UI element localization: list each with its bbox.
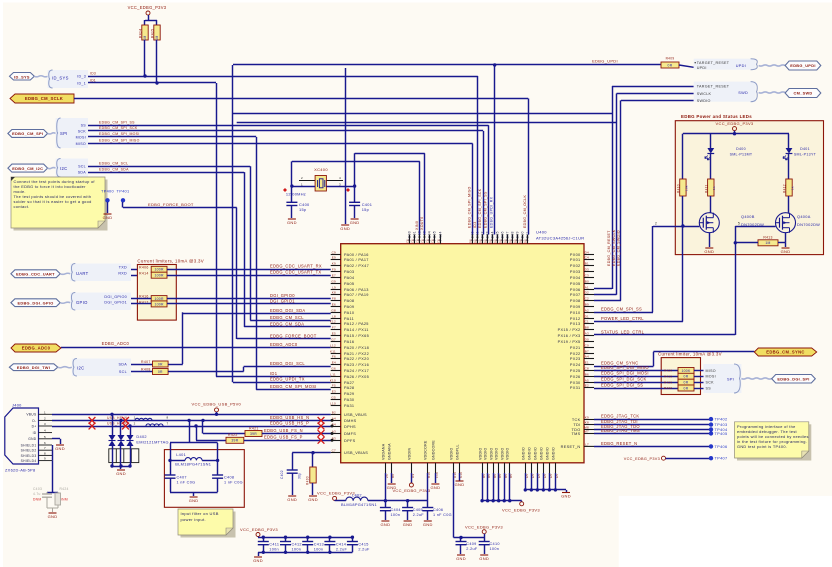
- svg-text:PX12: PX12: [570, 317, 581, 321]
- svg-text:PA06 / PA13: PA06 / PA13: [344, 288, 369, 292]
- wire: [785, 233, 787, 243]
- svg-text:K8: K8: [585, 421, 589, 425]
- svg-text:E9: E9: [332, 256, 336, 260]
- wire TARGET_RESET run: [233, 113, 612, 115]
- capacitor C410: [484, 538, 486, 542]
- capacitor C409: [460, 538, 462, 542]
- svg-text:VBUS: VBUS: [26, 413, 37, 417]
- harness UPDI: [694, 59, 756, 70]
- svg-text:5: 5: [44, 435, 46, 439]
- svg-text:D6: D6: [504, 239, 508, 243]
- svg-text:SHIELD1: SHIELD1: [21, 443, 37, 447]
- wire crystal: [292, 186, 315, 188]
- wire EDBG_CM_SPI_SCK to top pin: [483, 131, 485, 235]
- svg-text:Input filter on USB: Input filter on USB: [181, 511, 219, 516]
- svg-text:PX10: PX10: [570, 311, 581, 315]
- svg-text:K12: K12: [330, 320, 336, 324]
- svg-text:PA02 / PX47: PA02 / PX47: [344, 264, 369, 268]
- svg-text:7: 7: [44, 446, 46, 450]
- svg-text:EDBG_CM_SPI_SS: EDBG_CM_SPI_SS: [601, 307, 642, 312]
- harness UART: [70, 264, 131, 282]
- svg-text:D6: D6: [499, 239, 503, 243]
- svg-text:L12: L12: [330, 344, 336, 348]
- svg-text:GNDPLL: GNDPLL: [456, 444, 460, 460]
- svg-text:D6: D6: [509, 239, 513, 243]
- port EDBG_CDC_UART: [11, 270, 60, 278]
- svg-text:5: 5: [738, 222, 740, 226]
- wire EDBG_FORCE_BOOT: [237, 338, 331, 340]
- wire TARGET_RESET: [612, 86, 694, 88]
- svg-text:2.2uF: 2.2uF: [466, 547, 478, 551]
- svg-text:power input.: power input.: [181, 517, 206, 522]
- svg-text:C414: C414: [336, 542, 346, 546]
- svg-text:C6: C6: [421, 239, 425, 243]
- wire EDBG_DGI_SDA: [183, 313, 331, 315]
- port CM_SWD: [785, 89, 821, 98]
- svg-text:PA27: PA27: [344, 381, 354, 385]
- wire ID1: [216, 83, 218, 377]
- svg-text:GPIO: GPIO: [76, 300, 88, 305]
- chip top pins group 1: [409, 235, 411, 244]
- port ID_SYS: [10, 73, 35, 81]
- svg-text:PA10: PA10: [344, 311, 354, 315]
- ground: [104, 213, 112, 215]
- svg-text:PX26: PX26: [570, 375, 581, 379]
- capacitor C408: [217, 460, 219, 475]
- wire XIN0: [291, 161, 293, 186]
- wire EDBG_RESET_N: [594, 446, 711, 448]
- wire GNDIO bus: [525, 473, 527, 490]
- ground: [52, 508, 54, 512]
- svg-text:15p: 15p: [362, 207, 369, 212]
- capacitor C414: [329, 537, 331, 541]
- svg-text:EDBG_CM_SPI_SS: EDBG_CM_SPI_SS: [99, 120, 135, 124]
- svg-text:UART: UART: [76, 271, 89, 276]
- wire: [144, 40, 146, 76]
- svg-text:GND: GND: [423, 522, 433, 527]
- port EDBG_ADC0: [11, 344, 61, 352]
- svg-text:R430: R430: [306, 476, 310, 485]
- component body D402: [109, 449, 139, 463]
- svg-text:SML-P13MT: SML-P13MT: [730, 152, 753, 156]
- svg-text:D6: D6: [524, 239, 528, 243]
- svg-text:30p: 30p: [298, 473, 302, 479]
- svg-text:G6: G6: [331, 367, 336, 371]
- wire: [168, 364, 183, 366]
- svg-text:BLM18PG471SN1: BLM18PG471SN1: [175, 462, 211, 467]
- svg-text:DPFS: DPFS: [344, 439, 356, 443]
- svg-text:PA31: PA31: [344, 404, 354, 408]
- svg-text:B1: B1: [585, 262, 589, 266]
- harness I2C (TWI): [72, 359, 131, 377]
- svg-text:GND: GND: [381, 522, 391, 527]
- svg-text:PX19 / PX5: PX19 / PX5: [558, 340, 581, 344]
- wire: [679, 65, 694, 67]
- svg-text:2: 2: [301, 176, 303, 180]
- svg-text:E1: E1: [585, 361, 589, 365]
- svg-text:B9: B9: [585, 303, 589, 307]
- svg-text:C6: C6: [416, 239, 420, 243]
- svg-text:100n: 100n: [490, 547, 500, 551]
- svg-text:D6: D6: [494, 239, 498, 243]
- svg-text:SDA: SDA: [78, 170, 87, 174]
- wire EDBG_SPI_DGI_SS: [594, 388, 678, 390]
- wire EDBG_FORCE_BOOT: [122, 202, 124, 208]
- svg-text:4: 4: [339, 176, 341, 180]
- svg-text:C9: C9: [332, 251, 336, 255]
- svg-text:R405: R405: [151, 29, 155, 38]
- svg-text:EDBG_SPI_DGI_SCK: EDBG_SPI_DGI_SCK: [601, 377, 647, 382]
- svg-text:PA28: PA28: [344, 386, 354, 390]
- svg-text:100n: 100n: [314, 548, 324, 552]
- wire GNDANA: [391, 473, 393, 483]
- harness SPI: [56, 118, 88, 148]
- svg-text:100R: 100R: [154, 302, 164, 306]
- wire SWDIO: [621, 100, 694, 102]
- svg-text:R406: R406: [139, 265, 149, 269]
- svg-text:PA12 / PA25: PA12 / PA25: [344, 322, 369, 326]
- svg-text:D6: D6: [514, 239, 518, 243]
- svg-text:EDBG_CM_I2C: EDBG_CM_I2C: [12, 166, 43, 171]
- svg-text:VCC_EDBG_P3V3: VCC_EDBG_P3V3: [317, 491, 355, 496]
- svg-text:EDBG_CM_RESET: EDBG_CM_RESET: [607, 230, 611, 266]
- svg-text:C1: C1: [585, 320, 589, 324]
- wire gate Q400B: [653, 226, 699, 228]
- svg-text:2: 2: [655, 222, 657, 226]
- svg-text:VDDIN: VDDIN: [408, 447, 412, 460]
- svg-text:PA15 / PX65: PA15 / PX65: [344, 334, 369, 338]
- svg-text:SPI: SPI: [60, 131, 68, 136]
- wire EDBG_CM_SPI_MOSI: [256, 137, 258, 390]
- svg-text:SS: SS: [81, 124, 87, 128]
- svg-text:B0: B0: [585, 280, 589, 284]
- wire: [710, 154, 712, 180]
- wire: [131, 364, 153, 366]
- svg-text:ID_3: ID_3: [77, 74, 86, 78]
- ground: [424, 520, 432, 522]
- svg-text:ID3: ID3: [90, 72, 96, 76]
- svg-text:ID_SYS: ID_SYS: [14, 75, 30, 80]
- svg-text:USB_VBUS: USB_VBUS: [344, 413, 367, 417]
- chip right pins PX00-PX31: [584, 254, 594, 256]
- svg-text:D2: D2: [585, 291, 589, 295]
- svg-text:L8: L8: [332, 315, 336, 319]
- svg-text:0R: 0R: [158, 362, 163, 366]
- svg-text:39R: 39R: [250, 432, 257, 436]
- svg-text:RXD: RXD: [118, 272, 127, 276]
- svg-text:0R: 0R: [684, 386, 689, 390]
- svg-text:R414: R414: [139, 271, 149, 275]
- svg-text:SHIELD4: SHIELD4: [21, 459, 37, 463]
- svg-text:EDBG_CM_SYNC: EDBG_CM_SYNC: [766, 350, 805, 355]
- svg-text:PX21: PX21: [570, 346, 581, 350]
- test point TP405: [709, 431, 713, 435]
- svg-text:SWD: SWD: [738, 91, 748, 95]
- led D401: [786, 148, 793, 154]
- svg-text:EDBG_CM_SPI_MISO: EDBG_CM_SPI_MISO: [99, 139, 140, 143]
- wire EDBG_CM_SWDIO row: [594, 300, 621, 302]
- svg-text:C405: C405: [413, 508, 423, 512]
- svg-text:L401: L401: [176, 452, 186, 457]
- svg-text:0R: 0R: [684, 375, 689, 379]
- svg-text:1M: 1M: [143, 35, 147, 40]
- svg-text:GND: GND: [287, 497, 297, 502]
- note programming interface: [737, 424, 811, 460]
- svg-text:39R: 39R: [231, 439, 238, 443]
- chip left pins PA00-PA31: [331, 254, 341, 256]
- chip pin RESET_N: [584, 445, 594, 447]
- wire EDBG_UPDI_RX to top pin: [494, 65, 496, 235]
- svg-text:G8: G8: [331, 309, 336, 313]
- svg-text:SCK: SCK: [706, 381, 715, 385]
- svg-text:C409: C409: [466, 542, 476, 546]
- capacitor C412: [285, 537, 287, 541]
- harness DGI SPI: [703, 364, 741, 393]
- svg-text:D6: D6: [474, 239, 478, 243]
- svg-text:EDBG_DGI_SPI: EDBG_DGI_SPI: [777, 377, 809, 382]
- port EDBG_DGI_GPIO: [11, 299, 60, 307]
- svg-text:SHIELD2: SHIELD2: [21, 449, 37, 453]
- wire EDBG_ADC0: [61, 347, 331, 349]
- svg-text:TP402: TP402: [715, 417, 728, 422]
- svg-text:4: 4: [44, 429, 46, 433]
- svg-text:SS: SS: [706, 386, 712, 390]
- svg-text:PX06: PX06: [570, 288, 581, 292]
- ground: [351, 218, 359, 220]
- svg-text:EDBG_CM_SPI_MOSI: EDBG_CM_SPI_MOSI: [270, 384, 317, 389]
- note bootloader test points: [14, 180, 108, 231]
- svg-text:D1: D1: [585, 315, 589, 319]
- svg-text:K8: K8: [332, 291, 336, 295]
- svg-text:PA21 / PX22: PA21 / PX22: [344, 352, 369, 356]
- svg-text:C7: C7: [332, 449, 336, 453]
- svg-text:contact.: contact.: [14, 204, 30, 209]
- svg-text:C408: C408: [224, 475, 234, 479]
- svg-text:EDBG_UPDI: EDBG_UPDI: [592, 59, 618, 64]
- ground: [117, 469, 125, 471]
- svg-text:100K: 100K: [681, 369, 691, 373]
- svg-text:J400: J400: [12, 403, 22, 408]
- resistor R405: [154, 25, 160, 40]
- svg-text:EDBG_USB_FS_N: EDBG_USB_FS_N: [264, 428, 303, 433]
- wire EDBG_CM_SPI_SS row: [594, 312, 653, 314]
- svg-text:VCC_EDBG_P3V3: VCC_EDBG_P3V3: [240, 527, 278, 532]
- svg-text:A5: A5: [585, 379, 589, 383]
- svg-text:GND: GND: [704, 249, 714, 254]
- svg-text:MOSI: MOSI: [76, 135, 86, 139]
- wire: [368, 500, 428, 502]
- ground: [404, 520, 412, 522]
- svg-text:DNM: DNM: [33, 498, 41, 502]
- harness I2C: [56, 159, 88, 178]
- ground: [388, 483, 396, 485]
- svg-text:VDDANA: VDDANA: [382, 443, 386, 460]
- svg-text:PX22: PX22: [570, 352, 581, 356]
- svg-text:PA07 / PA19: PA07 / PA19: [344, 293, 369, 297]
- svg-text:D6: D6: [489, 239, 493, 243]
- svg-text:100n: 100n: [292, 548, 302, 552]
- svg-text:C402: C402: [280, 470, 284, 479]
- svg-text:EDBG_UPDI_TX: EDBG_UPDI_TX: [270, 377, 305, 382]
- svg-text:PA29: PA29: [344, 392, 354, 396]
- wire: [735, 242, 758, 244]
- wire gate Q400A: [735, 226, 775, 228]
- svg-text:GND: GND: [308, 497, 318, 502]
- svg-text:TP407: TP407: [715, 456, 728, 461]
- svg-text:2.2uF: 2.2uF: [358, 548, 370, 552]
- wire SWCLK: [617, 93, 694, 95]
- chip bottom pins power: [385, 463, 387, 473]
- svg-text:B2: B2: [332, 411, 336, 415]
- wire EDBG_CM_SCL vertical: [250, 166, 252, 320]
- svg-text:8: 8: [167, 416, 169, 420]
- svg-text:2.2uF: 2.2uF: [413, 513, 425, 517]
- svg-text:E7: E7: [332, 274, 336, 278]
- svg-text:1: 1: [301, 182, 303, 186]
- svg-text:MISO: MISO: [76, 142, 86, 146]
- svg-text:PA11: PA11: [344, 317, 354, 321]
- current limiter box: [137, 265, 176, 321]
- svg-text:C6: C6: [411, 239, 415, 243]
- svg-text:L11: L11: [330, 373, 336, 377]
- svg-text:L7: L7: [585, 443, 589, 447]
- svg-text:SML-P13YT: SML-P13YT: [794, 152, 817, 156]
- wire EDBG_CM_SDA vertical: [244, 172, 246, 327]
- svg-text:GND test point is TP400.: GND test point is TP400.: [737, 444, 787, 449]
- svg-text:EDBG_USB_FS_P: EDBG_USB_FS_P: [264, 435, 303, 440]
- wire POWER_LED_CTRL: [594, 321, 683, 323]
- svg-text:TP406: TP406: [715, 444, 728, 449]
- wire EDBG_CM_SWCLK vertical: [616, 94, 618, 295]
- svg-text:VDDIO: VDDIO: [506, 447, 510, 460]
- svg-text:C3: C3: [585, 274, 589, 278]
- svg-text:1: 1: [44, 410, 46, 414]
- svg-text:PX15 / PX2: PX15 / PX2: [558, 328, 581, 332]
- resistor R410: [680, 179, 686, 196]
- ground: [562, 492, 570, 494]
- svg-text:EDBG_CM_SCL: EDBG_CM_SCL: [99, 162, 128, 166]
- svg-text:EDBG Power and Status LEDs: EDBG Power and Status LEDs: [681, 114, 752, 119]
- svg-text:VCC_EDBG_P3V3: VCC_EDBG_P3V3: [624, 457, 660, 461]
- svg-text:STATUS_LED_CTRL: STATUS_LED_CTRL: [601, 329, 645, 334]
- svg-text:ID_SYS: ID_SYS: [52, 76, 69, 81]
- capacitor C405: [407, 501, 409, 508]
- svg-text:2: 2: [44, 416, 46, 420]
- svg-text:EDBG_JTAG_TMS: EDBG_JTAG_TMS: [601, 428, 640, 433]
- svg-text:PX23: PX23: [570, 357, 581, 361]
- current limiter box (SPI DGI): [661, 358, 700, 395]
- svg-text:D6: D6: [484, 239, 488, 243]
- svg-text:G7: G7: [331, 338, 336, 342]
- port EDBG_UPDI: [785, 61, 821, 70]
- wire EDBG_CM_SYNC: [594, 366, 653, 368]
- svg-text:A2: A2: [585, 309, 589, 313]
- svg-text:SHIELD3: SHIELD3: [21, 454, 37, 458]
- svg-text:R409: R409: [666, 57, 675, 61]
- note input filter: [181, 512, 236, 538]
- svg-text:SPI: SPI: [727, 377, 734, 381]
- ground: [381, 520, 389, 522]
- resistor R430: [312, 453, 314, 467]
- wire: [454, 537, 485, 539]
- capacitor C400: [291, 186, 293, 202]
- wire VDDIO to caps: [453, 473, 455, 538]
- svg-text:R422: R422: [228, 433, 238, 437]
- svg-text:PA16: PA16: [344, 340, 354, 344]
- svg-text:D401: D401: [800, 147, 810, 151]
- wire EDBG_JTAG_TCK: [594, 419, 711, 421]
- svg-text:GNDIO: GNDIO: [528, 447, 532, 460]
- svg-text:ID1: ID1: [270, 371, 278, 376]
- svg-text:R425: R425: [664, 380, 672, 384]
- svg-text:GND: GND: [28, 437, 37, 441]
- wire EDBG_CM_SPI_MISO to top pin: [472, 144, 474, 235]
- svg-text:VDDCORE: VDDCORE: [424, 440, 428, 460]
- svg-text:PX30: PX30: [570, 381, 581, 385]
- svg-text:EDBG_ADC0: EDBG_ADC0: [22, 346, 51, 351]
- port EDBG_CM_SYNC: [754, 348, 816, 356]
- svg-text:EDBG_CDC_USART_RX: EDBG_CDC_USART_RX: [270, 264, 322, 269]
- ground: [456, 480, 464, 482]
- svg-text:100R: 100R: [154, 268, 164, 272]
- svg-text:12.00MHz: 12.00MHz: [286, 192, 306, 197]
- wire: [168, 371, 244, 373]
- svg-text:EDBG_CM_SPI_SCK: EDBG_CM_SPI_SCK: [478, 188, 482, 228]
- svg-text:R424: R424: [60, 487, 69, 491]
- wire EDBG_SPI_DGI_MOSI: [594, 376, 678, 378]
- svg-text:USB_VBIAS: USB_VBIAS: [344, 451, 368, 455]
- svg-text:D6: D6: [479, 239, 483, 243]
- svg-text:VCC_EDBG_P3V3: VCC_EDBG_P3V3: [128, 5, 167, 10]
- capacitor C404: [385, 501, 387, 508]
- svg-text:PA09: PA09: [344, 305, 354, 309]
- svg-text:D400: D400: [736, 147, 746, 151]
- svg-text:7: 7: [167, 421, 169, 425]
- svg-text:Q400B: Q400B: [741, 214, 755, 219]
- svg-text:SDA: SDA: [119, 362, 128, 366]
- svg-text:R421: R421: [249, 426, 259, 430]
- svg-text:TXD: TXD: [119, 266, 127, 270]
- ground: [431, 483, 439, 485]
- svg-text:SCK: SCK: [78, 129, 87, 133]
- capacitor C407: [170, 460, 172, 475]
- transistor Q400B: [699, 213, 719, 233]
- svg-text:EMI2121MTTAG: EMI2121MTTAG: [136, 440, 169, 445]
- wire: [666, 458, 712, 460]
- test point TP407: [709, 456, 713, 460]
- ground: [288, 495, 296, 497]
- svg-text:EDBG_DGI_GPIO: EDBG_DGI_GPIO: [17, 300, 53, 305]
- wire EDBG_JTAG_TDO: [594, 429, 711, 431]
- svg-text:TARGET_RESET: TARGET_RESET: [697, 85, 730, 89]
- wire STATUS_LED_CTRL: [594, 334, 735, 336]
- svg-text:100n: 100n: [391, 513, 401, 517]
- svg-text:POWER_LED_CTRL: POWER_LED_CTRL: [601, 316, 644, 321]
- svg-text:VDDIO: VDDIO: [490, 447, 494, 460]
- svg-text:VDDIO: VDDIO: [495, 447, 499, 460]
- capacitor C401: [354, 186, 356, 202]
- svg-text:DGI_GPIO1: DGI_GPIO1: [104, 300, 127, 304]
- svg-text:EDBG_CM_SCLK: EDBG_CM_SCLK: [25, 96, 63, 101]
- wire EDBG_SPI_DGI_MISO: [594, 370, 678, 372]
- svg-text:EDBG_ADC0: EDBG_ADC0: [270, 342, 298, 347]
- svg-text:PA04: PA04: [344, 276, 355, 280]
- wire EDBG_JTAG_TMS: [594, 433, 711, 435]
- wire USB_VBIAS: [292, 452, 331, 454]
- harness GPIO: [70, 293, 131, 311]
- svg-text:GND: GND: [781, 249, 791, 254]
- svg-text:EDBG_RESET_N: EDBG_RESET_N: [601, 441, 637, 446]
